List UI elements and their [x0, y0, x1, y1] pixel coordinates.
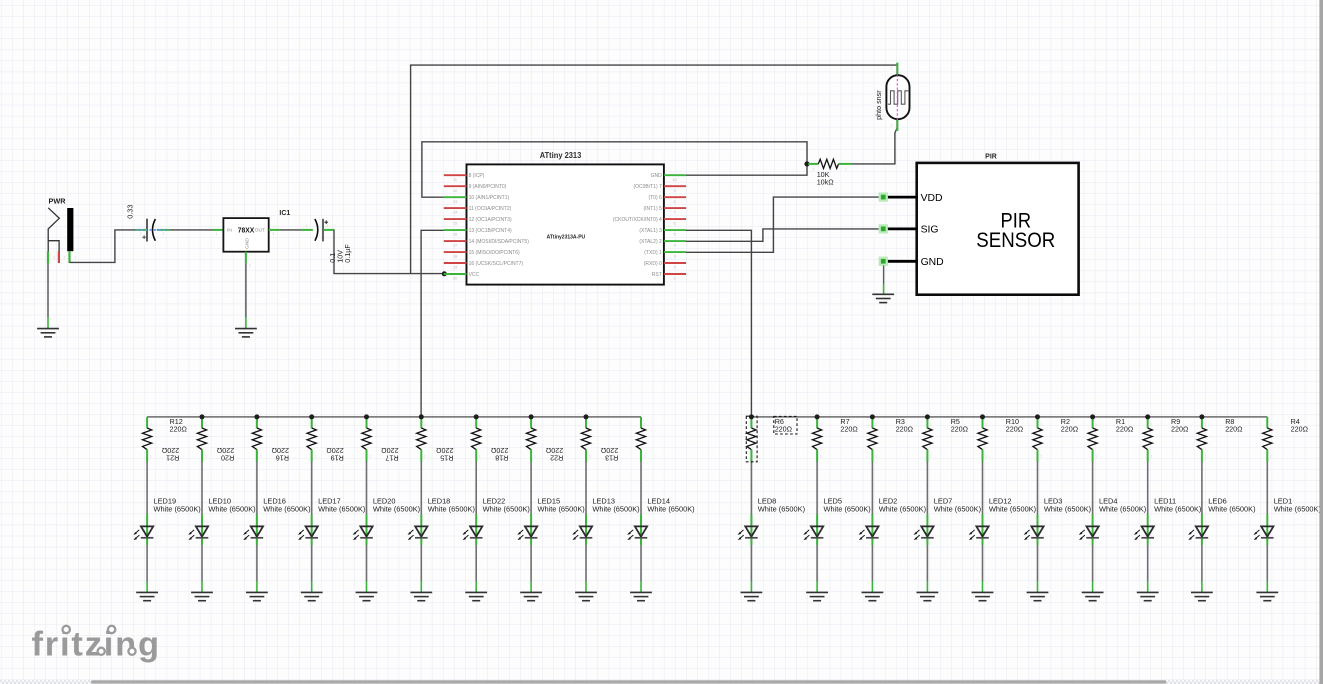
svg-text:White (6500K): White (6500K) — [1274, 505, 1321, 514]
capacitor C2 — [301, 219, 335, 242]
svg-text:(CKOUT/XCK/INT0) 4: (CKOUT/XCK/INT0) 4 — [613, 217, 662, 223]
label LED12 — [989, 497, 1036, 514]
svg-text:2: 2 — [534, 423, 536, 427]
svg-text:1: 1 — [163, 232, 165, 236]
svg-text:2: 2 — [1205, 423, 1207, 427]
svg-text:10 (AIN1/PCINT1): 10 (AIN1/PCINT1) — [469, 195, 510, 201]
label R21 220 ohm (rotated 180) — [161, 446, 179, 463]
resistor R9 — [1143, 417, 1152, 462]
wire R17 to LED18 — [420, 462, 422, 515]
resistor R15 — [472, 417, 481, 462]
resistor R18 — [527, 417, 536, 462]
ground below PIR — [872, 294, 894, 302]
svg-text:10: 10 — [672, 178, 676, 182]
pin 4 right ((XTAL2) 2) — [639, 239, 686, 248]
ground below IC1 — [235, 329, 257, 337]
svg-text:2: 2 — [985, 423, 987, 427]
svg-text:220Ω: 220Ω — [1116, 424, 1134, 433]
svg-text:12 (OC1A/PCINT3): 12 (OC1A/PCINT3) — [469, 217, 512, 223]
wire R6 to LED8 — [750, 462, 752, 515]
LED LED17 — [298, 515, 318, 546]
svg-text:White (6500K): White (6500K) — [538, 505, 585, 514]
label LED8 — [758, 497, 805, 514]
svg-text:GND: GND — [921, 257, 944, 268]
svg-text:20: 20 — [453, 277, 457, 281]
fritzing watermark — [32, 626, 161, 664]
label R17 220 ohm (rotated 180) — [381, 446, 399, 463]
LED LED6 — [1188, 515, 1208, 546]
ground below LED13 — [575, 592, 597, 600]
svg-text:2: 2 — [1150, 423, 1152, 427]
wire VCC rail up to photo sensor top — [411, 65, 898, 274]
svg-text:13 (OC1B/PCINT4): 13 (OC1B/PCINT4) — [469, 228, 512, 234]
wire R3 to LED2 — [871, 462, 873, 515]
svg-text:2: 2 — [369, 423, 371, 427]
wire LED22 to ground — [475, 545, 477, 581]
ground below LED20 — [356, 592, 378, 600]
pin 3 right ((TXD) 1) — [644, 250, 686, 259]
svg-text:(OC0B/T1) 7: (OC0B/T1) 7 — [633, 184, 662, 190]
svg-text:7: 7 — [673, 211, 675, 215]
ground below LED2 — [862, 592, 884, 600]
svg-text:4: 4 — [673, 244, 675, 248]
LED LED16 — [243, 515, 263, 546]
svg-text:16 (UCSK/SCL/PCINT7): 16 (UCSK/SCL/PCINT7) — [469, 261, 524, 267]
label LED13 — [592, 497, 639, 514]
wire LED3 to ground — [1037, 545, 1039, 581]
faint pin numbers — [54, 67, 893, 269]
label LED11 — [1154, 497, 1201, 514]
wire R16 to LED17 — [311, 462, 313, 515]
svg-text:1: 1 — [260, 455, 262, 459]
pin 8 right ((T0) 6) — [648, 195, 686, 204]
svg-text:2: 2 — [260, 423, 262, 427]
svg-text:17: 17 — [453, 244, 457, 248]
svg-text:0.33: 0.33 — [125, 205, 134, 219]
svg-text:2: 2 — [424, 423, 426, 427]
label R18 220 ohm (rotated 180) — [490, 446, 508, 463]
label R13 220 ohm (rotated 180) — [600, 446, 618, 463]
capacitor C1 — [135, 219, 170, 242]
resistor R5 — [923, 417, 932, 462]
svg-text:1: 1 — [306, 224, 308, 228]
svg-text:2: 2 — [140, 232, 142, 236]
svg-text:R16: R16 — [276, 453, 289, 462]
LED LED12 — [969, 515, 989, 546]
wire R21 to LED10 — [201, 462, 203, 515]
svg-text:1: 1 — [1040, 455, 1042, 459]
right scrollbar — [1319, 0, 1323, 684]
svg-text:(TXD) 1: (TXD) 1 — [644, 250, 662, 256]
label LED4 — [1099, 497, 1146, 514]
resistor R22 — [581, 417, 590, 462]
svg-text:R13: R13 — [605, 453, 618, 462]
svg-text:2: 2 — [479, 423, 481, 427]
svg-text:220Ω: 220Ω — [840, 424, 858, 433]
wire R8 to LED6 — [1201, 462, 1203, 515]
svg-text:White (6500K): White (6500K) — [824, 505, 871, 514]
label R5 220 ohm — [951, 417, 969, 434]
svg-text:White (6500K): White (6500K) — [1044, 505, 1091, 514]
label LED1 — [1274, 497, 1321, 514]
svg-text:1: 1 — [644, 455, 646, 459]
bus junction dots right bank — [749, 414, 1205, 419]
svg-text:OUT: OUT — [255, 228, 265, 234]
svg-text:18: 18 — [453, 255, 457, 259]
pin 17 left (14 (MOSI/DI/SDA/PCINT5)) — [444, 239, 529, 248]
wire LED10 to ground — [201, 545, 203, 581]
label LED18 — [428, 497, 475, 514]
resistor R21 — [197, 417, 206, 462]
ratsnest highlight (blue dashes) — [136, 229, 168, 231]
LED LED7 — [914, 515, 934, 546]
LED LED2 — [859, 515, 879, 546]
bottom scrollbar thumb — [91, 680, 1166, 683]
voltage regulator IC1 78XX — [213, 218, 280, 263]
ground below LED22 — [465, 592, 487, 600]
svg-text:(INT1) 5: (INT1) 5 — [643, 206, 662, 212]
label LED2 — [879, 497, 926, 514]
resistor R3 — [868, 417, 877, 462]
LED LED13 — [572, 515, 592, 546]
svg-text:1: 1 — [875, 455, 877, 459]
svg-text:220Ω: 220Ω — [896, 424, 914, 433]
ground below LED6 — [1191, 592, 1213, 600]
resistor R6 — [747, 417, 756, 462]
svg-text:1: 1 — [479, 455, 481, 459]
svg-text:5: 5 — [673, 233, 675, 237]
svg-text:12: 12 — [453, 189, 457, 193]
wire R1 to LED4 — [1092, 462, 1094, 515]
ground below PWR — [37, 329, 59, 337]
label LED7 — [934, 497, 981, 514]
label LED22 — [483, 497, 530, 514]
svg-text:220Ω: 220Ω — [1291, 424, 1309, 433]
wire LED19 to ground — [146, 545, 148, 581]
svg-text:11 (OC0A/PCINT2): 11 (OC0A/PCINT2) — [469, 206, 512, 212]
svg-text:16: 16 — [453, 233, 457, 237]
svg-text:1: 1 — [369, 455, 371, 459]
svg-text:2: 2 — [673, 266, 675, 270]
label LED19 — [154, 497, 201, 514]
svg-text:White (6500K): White (6500K) — [1208, 505, 1255, 514]
svg-text:R22: R22 — [550, 453, 563, 462]
wire LED15 to ground — [530, 545, 532, 581]
wire R19 to LED20 — [366, 462, 368, 515]
svg-text:White (6500K): White (6500K) — [758, 505, 805, 514]
LDR internal element — [888, 91, 908, 104]
svg-text:1: 1 — [930, 455, 932, 459]
junction node at 10K left — [804, 161, 809, 166]
wire LED8 to ground — [750, 545, 752, 581]
svg-text:White (6500K): White (6500K) — [428, 505, 475, 514]
svg-text:White (6500K): White (6500K) — [647, 505, 694, 514]
svg-text:220Ω: 220Ω — [1006, 424, 1024, 433]
ground below LED11 — [1137, 592, 1159, 600]
ground below LED8 — [741, 592, 763, 600]
svg-text:10kΩ: 10kΩ — [817, 178, 835, 187]
svg-text:220Ω: 220Ω — [1171, 424, 1189, 433]
svg-text:220Ω: 220Ω — [1225, 424, 1243, 433]
svg-text:2: 2 — [1270, 423, 1272, 427]
pin 5 right ((XTAL1) 3) — [639, 228, 686, 237]
svg-text:White (6500K): White (6500K) — [934, 505, 981, 514]
svg-text:White (6500K): White (6500K) — [989, 505, 1036, 514]
wire PIR GND to ground — [883, 266, 885, 285]
svg-text:1: 1 — [845, 168, 847, 172]
pin PIR VDD — [879, 192, 943, 203]
svg-text:2: 2 — [54, 255, 56, 259]
resistor R13 — [636, 417, 645, 462]
svg-text:R21: R21 — [166, 453, 179, 462]
wire LED11 to ground — [1147, 545, 1149, 581]
wire R15 to LED22 — [475, 462, 477, 515]
ground below LED1 — [1256, 592, 1278, 600]
resistor R8 — [1197, 417, 1206, 462]
wire OC1B down to left LED bus — [421, 230, 444, 417]
bus junction dots left bank — [200, 414, 589, 419]
svg-text:220Ω: 220Ω — [1061, 424, 1079, 433]
pin J1 sleeve (green) — [47, 251, 49, 263]
LED LED22 — [462, 515, 482, 546]
label LED3 — [1044, 497, 1091, 514]
svg-text:White (6500K): White (6500K) — [208, 505, 255, 514]
wire LED20 to ground — [366, 545, 368, 581]
svg-text:3: 3 — [673, 255, 675, 259]
svg-text:15: 15 — [453, 222, 457, 226]
photo sensor LDR pins — [896, 63, 898, 76]
LED LED20 — [353, 515, 373, 546]
ground below LED7 — [917, 592, 939, 600]
LED LED11 — [1134, 515, 1154, 546]
ground below LED18 — [410, 592, 432, 600]
wire R10 to LED12 — [982, 462, 984, 515]
ground below LED10 — [191, 592, 213, 600]
svg-text:PWR: PWR — [49, 197, 67, 206]
svg-text:fritzing: fritzing — [32, 626, 161, 664]
label LED10 — [208, 497, 255, 514]
wire R20 to LED16 — [256, 462, 258, 515]
wire LED13 to ground — [585, 545, 587, 581]
svg-text:9: 9 — [673, 189, 675, 193]
label R3 220 ohm — [896, 417, 914, 434]
wire LED6 to ground — [1201, 545, 1203, 581]
wire LED5 to ground — [816, 545, 818, 581]
svg-text:White (6500K): White (6500K) — [1099, 505, 1146, 514]
svg-text:SENSOR: SENSOR — [976, 228, 1055, 252]
svg-text:White (6500K): White (6500K) — [154, 505, 201, 514]
wire C2 to ATtiny VCC — [334, 230, 444, 274]
svg-text:2: 2 — [1095, 423, 1097, 427]
svg-text:11: 11 — [453, 178, 457, 182]
label R8 220 ohm — [1225, 417, 1243, 434]
wire R2 to LED3 — [1037, 462, 1039, 515]
pin 12 left (9 (AIN0/PCINT0)) — [444, 184, 507, 193]
wire R4 to LED1 — [1266, 462, 1268, 515]
wire 10K to photo sensor bottom — [851, 128, 897, 164]
LED LED5 — [803, 515, 823, 546]
LED LED14 — [627, 515, 647, 546]
label R2 220 ohm — [1061, 417, 1079, 434]
pin 11 left (8 (ICP)) — [444, 173, 485, 182]
IC U1 ATtiny2313 body — [467, 164, 664, 284]
pin 10 right (GND) — [651, 173, 686, 182]
svg-text:2: 2 — [754, 423, 756, 427]
svg-text:14: 14 — [453, 211, 457, 215]
svg-text:White (6500K): White (6500K) — [373, 505, 420, 514]
svg-text:15 (MISO/DO/PCINT6): 15 (MISO/DO/PCINT6) — [469, 250, 520, 256]
wire XTAL1 down to right LED bus — [686, 230, 752, 417]
LED LED19 — [133, 515, 153, 546]
svg-text:1: 1 — [985, 455, 987, 459]
svg-text:White (6500K): White (6500K) — [879, 505, 926, 514]
label LED15 — [538, 497, 585, 514]
svg-text:19: 19 — [453, 266, 457, 270]
wire R7 to LED5 — [816, 462, 818, 515]
resistor R20 — [252, 417, 261, 462]
pin J1 tip (green) — [68, 251, 70, 263]
wire LED16 to ground — [256, 545, 258, 581]
pin 1 right (RST) — [652, 272, 686, 281]
wire PWR sleeve to ground — [47, 264, 49, 318]
resistor R12 — [143, 417, 152, 462]
svg-text:2: 2 — [813, 168, 815, 172]
ground below LED15 — [520, 592, 542, 600]
svg-text:1: 1 — [1150, 455, 1152, 459]
svg-text:RST: RST — [652, 272, 662, 278]
power jack J1 — [48, 208, 73, 252]
svg-text:R17: R17 — [385, 453, 398, 462]
resistor R1 — [1088, 417, 1097, 462]
label R7 220 ohm — [840, 417, 858, 434]
svg-text:PIR: PIR — [985, 154, 997, 161]
label LED20 — [373, 497, 420, 514]
wire LED7 to ground — [926, 545, 928, 581]
svg-text:8: 8 — [673, 200, 675, 204]
svg-text:1: 1 — [216, 232, 218, 236]
svg-text:ATtiny2313A-PU: ATtiny2313A-PU — [547, 235, 586, 241]
svg-text:White (6500K): White (6500K) — [483, 505, 530, 514]
ground below LED19 — [136, 592, 158, 600]
svg-text:1: 1 — [589, 455, 591, 459]
wire ATtiny GND to 10K junction — [686, 164, 807, 175]
pin PIR GND — [879, 257, 944, 268]
wire right LED bus — [751, 416, 1267, 418]
selection box around R6 — [746, 416, 757, 462]
svg-text:1: 1 — [1095, 455, 1097, 459]
svg-text:2: 2 — [589, 423, 591, 427]
capacitor C2 labels 0.1 10V 0.1uF (rotated) — [328, 244, 352, 263]
pin 13 left (10 (AIN1/PCINT1)) — [444, 195, 510, 204]
svg-text:R20: R20 — [221, 453, 234, 462]
resistor R10 — [978, 417, 987, 462]
resistor R11 10K horizontal — [808, 159, 851, 168]
svg-text:2: 2 — [891, 67, 893, 71]
svg-text:1: 1 — [673, 277, 675, 281]
svg-text:White (6500K): White (6500K) — [263, 505, 310, 514]
svg-text:1: 1 — [150, 455, 152, 459]
LED LED1 — [1254, 515, 1274, 546]
LED LED4 — [1079, 515, 1099, 546]
svg-text:1: 1 — [205, 455, 207, 459]
svg-text:2: 2 — [930, 423, 932, 427]
svg-text:(T0) 6: (T0) 6 — [648, 195, 662, 201]
svg-text:2: 2 — [314, 423, 316, 427]
pin 20 left (VCC) — [444, 272, 480, 281]
wire LED18 to ground — [420, 545, 422, 581]
svg-text:White (6500K): White (6500K) — [592, 505, 639, 514]
svg-text:13: 13 — [453, 200, 457, 204]
svg-text:R19: R19 — [331, 453, 344, 462]
svg-text:(XTAL2) 2: (XTAL2) 2 — [639, 239, 662, 245]
svg-text:VCC: VCC — [469, 272, 480, 278]
wire LED12 to ground — [982, 545, 984, 581]
LED LED3 — [1024, 515, 1044, 546]
svg-text:1: 1 — [891, 124, 893, 128]
svg-text:SIG: SIG — [921, 225, 939, 236]
svg-text:2: 2 — [64, 255, 66, 259]
svg-text:2: 2 — [644, 423, 646, 427]
bottom scrollbar track — [0, 680, 91, 684]
wire IC1 OUT to C2 — [280, 229, 302, 231]
pin 16 left (13 (OC1B/PCINT4)) — [444, 228, 512, 237]
LED LED8 — [738, 515, 758, 546]
svg-text:9 (AIN0/PCINT0): 9 (AIN0/PCINT0) — [469, 184, 507, 190]
label R19 220 ohm (rotated 180) — [326, 446, 344, 463]
svg-text:2: 2 — [820, 423, 822, 427]
svg-text:GND: GND — [244, 238, 250, 249]
resistor R2 — [1033, 417, 1042, 462]
svg-text:6: 6 — [673, 222, 675, 226]
label R4 220 ohm — [1291, 417, 1309, 434]
ground below LED12 — [972, 592, 994, 600]
wire PWR tip to C1 — [70, 230, 136, 263]
ground below LED4 — [1082, 592, 1104, 600]
svg-text:1: 1 — [314, 455, 316, 459]
svg-text:2: 2 — [875, 423, 877, 427]
ground below LED3 — [1027, 592, 1049, 600]
wire R9 to LED11 — [1147, 462, 1149, 515]
svg-text:R18: R18 — [495, 453, 508, 462]
svg-text:220Ω: 220Ω — [170, 424, 188, 433]
wire AIN1 to 10K junction — [422, 142, 807, 197]
label LED5 — [824, 497, 871, 514]
wire R13 to LED14 — [640, 462, 642, 515]
svg-text:R15: R15 — [440, 453, 453, 462]
pin 19 left (16 (UCSK/SCL/PCINT7)) — [444, 261, 524, 270]
pin PIR SIG — [879, 224, 939, 235]
wire C1 to IC1 IN — [170, 229, 213, 231]
wire R22 to LED13 — [585, 462, 587, 515]
photo sensor LDR body — [886, 75, 909, 119]
svg-text:2: 2 — [205, 423, 207, 427]
resistor R4 — [1263, 417, 1272, 462]
svg-text:1: 1 — [1205, 455, 1207, 459]
svg-text:1: 1 — [754, 455, 756, 459]
svg-text:phto snsr: phto snsr — [874, 90, 883, 120]
wire R18 to LED15 — [530, 462, 532, 515]
pin 15 left (12 (OC1A/PCINT3)) — [444, 217, 512, 226]
pin 18 left (15 (MISO/DO/PCINT6)) — [444, 250, 520, 259]
wire LED1 to ground — [1266, 545, 1268, 581]
wire R5 to LED7 — [926, 462, 928, 515]
pin 14 left (11 (OC0A/PCINT2)) — [444, 206, 512, 215]
label R1 220 ohm — [1116, 417, 1134, 434]
label R22 220 ohm (rotated 180) — [545, 446, 563, 463]
wire LED2 to ground — [871, 545, 873, 581]
LED LED18 — [408, 515, 428, 546]
svg-text:IC1: IC1 — [279, 210, 290, 217]
